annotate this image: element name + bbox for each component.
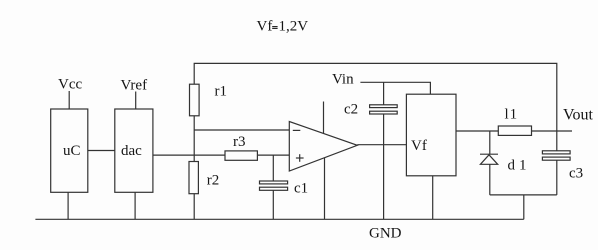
wire c3 bottom lead bbox=[556, 160, 558, 195]
svg-text:Vf: Vf bbox=[257, 19, 273, 35]
wire l1 to Vout bbox=[532, 130, 573, 132]
svg-text:dac: dac bbox=[121, 143, 142, 159]
box uC bbox=[51, 109, 88, 192]
svg-text:Vcc: Vcc bbox=[58, 77, 82, 93]
wire Vcc stub bbox=[68, 91, 70, 109]
wire top feedback rail bbox=[194, 63, 557, 150]
diode d1 cathode bar bbox=[480, 153, 498, 155]
wire r1 bottom to r2 top bbox=[193, 116, 195, 162]
wire c2 bottom lead to ground bbox=[383, 114, 385, 219]
wire r3 to non-inverting input bbox=[257, 154, 289, 156]
svg-text:Vout: Vout bbox=[563, 107, 593, 124]
wire dac ground stub bbox=[134, 192, 136, 219]
wire output bottom loop bbox=[490, 194, 557, 196]
wire r2 bottom to ground bbox=[193, 194, 195, 220]
wire d1 bottom lead bbox=[489, 164, 491, 195]
resistor r3 bbox=[225, 151, 257, 160]
svg-text:r3: r3 bbox=[233, 134, 246, 150]
wire Vf box ground stub bbox=[432, 176, 434, 220]
svg-text:c3: c3 bbox=[569, 166, 583, 182]
op-amp U1 triangle bbox=[289, 122, 357, 172]
svg-text:uC: uC bbox=[63, 143, 81, 159]
wire Vref stub bbox=[135, 92, 137, 110]
box Vf regulator bbox=[406, 94, 456, 176]
wire op-amp bottom power stub to ground bbox=[324, 158, 326, 220]
wire op-amp output to Vf box bbox=[357, 144, 406, 146]
svg-text:Vref: Vref bbox=[121, 78, 148, 94]
op-amp plus sign bbox=[296, 157, 304, 159]
svg-text:1,2V: 1,2V bbox=[279, 19, 309, 35]
wire Vf box output to l1 bbox=[456, 130, 498, 132]
wire c1 top lead bbox=[272, 155, 274, 181]
title Vf=1,2V bbox=[257, 19, 309, 35]
op-amp minus sign bbox=[293, 129, 301, 131]
box dac bbox=[115, 109, 153, 192]
wire inverting input bbox=[194, 129, 289, 131]
wire dac output to r3 bbox=[153, 154, 225, 156]
svg-text:GND: GND bbox=[369, 226, 402, 242]
svg-text:l1: l1 bbox=[505, 107, 519, 123]
capacitor C1 plates bbox=[260, 181, 288, 184]
svg-text:r1: r1 bbox=[215, 84, 228, 100]
wire Vin bbox=[360, 82, 430, 94]
wire c2 top lead bbox=[383, 82, 385, 105]
wire uC ground stub bbox=[67, 192, 69, 219]
resistor r2 bbox=[189, 162, 198, 194]
wire d1 top lead bbox=[489, 131, 491, 154]
svg-text:Vf: Vf bbox=[411, 138, 427, 154]
svg-text:d1: d1 bbox=[508, 158, 531, 174]
capacitor C3 plates bbox=[542, 151, 570, 154]
ground rail GND bbox=[35, 218, 523, 220]
diode d1 triangle bbox=[480, 155, 497, 165]
svg-text:c2: c2 bbox=[344, 102, 358, 118]
inductor l1 body bbox=[498, 126, 531, 135]
wire loop to ground bbox=[523, 195, 525, 219]
wire op-amp top power stub bbox=[323, 102, 325, 134]
svg-text:c1: c1 bbox=[294, 181, 308, 197]
wire c1 bottom to ground bbox=[272, 190, 274, 219]
capacitor C2 plates bbox=[370, 105, 398, 108]
svg-text:r2: r2 bbox=[207, 173, 220, 189]
svg-text:Vin: Vin bbox=[332, 72, 354, 88]
resistor r1 bbox=[190, 84, 200, 116]
wire uC to dac bbox=[88, 150, 115, 152]
